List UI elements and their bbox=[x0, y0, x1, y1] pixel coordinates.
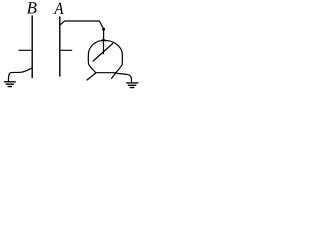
ground (left) bbox=[5, 82, 16, 87]
wire electrometer case to right ground bbox=[116, 73, 132, 82]
electrometer needle bbox=[93, 44, 113, 62]
node A label bbox=[54, 3, 64, 14]
right foot of electrometer bbox=[112, 73, 116, 79]
left foot of electrometer bbox=[87, 73, 96, 80]
wire plate A to electrometer top bbox=[61, 21, 104, 40]
electrometer U1 body (circle, flattened base) bbox=[88, 40, 122, 72]
terminal tick on plate B bbox=[19, 49, 32, 51]
junction dot on wire bbox=[102, 28, 105, 31]
node B label bbox=[27, 2, 37, 13]
capacitor plate A bbox=[59, 17, 61, 76]
ground (right) bbox=[127, 83, 138, 88]
terminal dot at electrometer top bbox=[102, 39, 106, 42]
capacitor plate B bbox=[31, 16, 33, 78]
terminal tick on plate A bbox=[60, 49, 72, 51]
electrometer rod bbox=[103, 41, 105, 54]
wire plate B to left ground bbox=[8, 68, 32, 81]
